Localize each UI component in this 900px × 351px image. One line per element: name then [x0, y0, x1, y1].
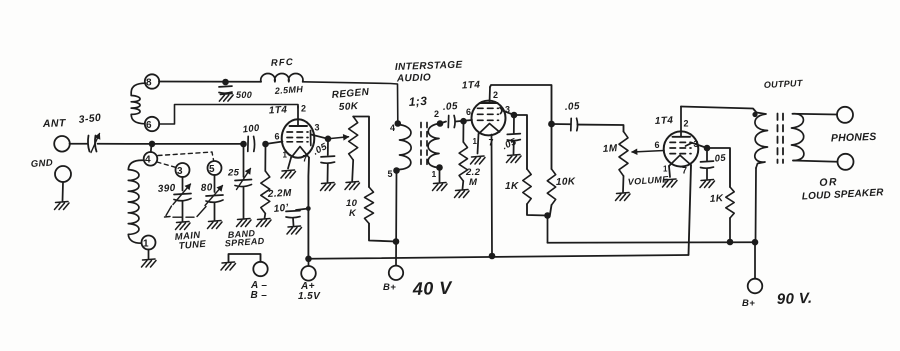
- svg-text:1M: 1M: [602, 143, 618, 155]
- inductor RFC 2.5MH: [261, 73, 303, 81]
- terminal phones top: [837, 107, 853, 123]
- svg-text:5: 5: [388, 169, 393, 179]
- svg-text:6: 6: [655, 140, 660, 150]
- svg-text:.05: .05: [711, 153, 727, 165]
- resistor R-2.2M tube2 grid: [462, 121, 464, 142]
- node 5 cap tap: [208, 161, 222, 175]
- junction screen node tube3: [704, 145, 711, 152]
- svg-text:.05: .05: [442, 101, 458, 113]
- terminal B+ 90V: [748, 279, 763, 294]
- ground under T1 secondary: [433, 183, 448, 191]
- ground terminal GND: [55, 166, 71, 182]
- wire tube2 plate: [490, 85, 552, 169]
- svg-text:M: M: [469, 177, 478, 188]
- svg-text:2: 2: [434, 109, 439, 119]
- ground under 10: [287, 226, 302, 234]
- svg-text:8: 8: [146, 78, 152, 89]
- wire tube2 pin7 filament: [491, 135, 494, 256]
- wire 10K to B+40 rail: [369, 224, 396, 242]
- svg-text:1T4: 1T4: [269, 105, 288, 117]
- svg-text:2: 2: [493, 90, 498, 100]
- svg-text:1.5V: 1.5V: [298, 291, 321, 302]
- capacitor C-.05 coupling tube2: [570, 118, 572, 130]
- svg-text:80: 80: [200, 182, 213, 194]
- wire tube1 pin7 filament: [307, 158, 310, 259]
- wire secondary to phones top: [793, 113, 838, 116]
- junction A+ node: [305, 255, 312, 262]
- terminal phones bottom: [838, 154, 854, 170]
- capacitor C-.05 screen tube1: [327, 139, 329, 155]
- wire B+90 rail riser: [547, 216, 549, 243]
- capacitor C-.05 screen tube3: [706, 148, 708, 161]
- wire screen to regen wiper: [328, 137, 349, 139]
- wire node1 down: [148, 250, 150, 259]
- ground under .05 tube3: [700, 180, 715, 188]
- wire sec pin1 to ground: [439, 168, 441, 183]
- svg-text:6: 6: [146, 120, 152, 131]
- svg-text:LOUD SPEAKER: LOUD SPEAKER: [802, 187, 885, 202]
- wire tube1 pin1 to ground: [288, 158, 291, 169]
- svg-text:OUTPUT: OUTPUT: [764, 78, 804, 90]
- junction pin1 sec: [436, 164, 443, 171]
- winding T1 secondary: [428, 124, 440, 168]
- wire tube3 pin7 filament: [689, 165, 692, 255]
- svg-text:.05: .05: [501, 136, 519, 152]
- junction B+ feed node: [544, 212, 551, 219]
- svg-text:INTERSTAGE: INTERSTAGE: [395, 60, 463, 73]
- wire RFC to interstage pin4: [303, 82, 398, 122]
- junction tank-coil node: [149, 141, 156, 148]
- svg-text:1: 1: [143, 239, 149, 250]
- resistor R-10K regen feed: [365, 187, 374, 224]
- junction pin5: [393, 167, 400, 174]
- svg-text:PHONES: PHONES: [831, 131, 877, 145]
- wire A+ filament bus: [309, 255, 689, 259]
- svg-text:ANT: ANT: [42, 117, 67, 130]
- wire grid to tube1: [266, 142, 283, 145]
- dashed link 4 to 3: [157, 162, 176, 168]
- wire tube1 pin3 screen: [311, 135, 328, 139]
- svg-text:B+: B+: [742, 298, 755, 309]
- wire pot top to 10K: [353, 117, 369, 188]
- svg-text:B+: B+: [383, 282, 396, 293]
- wire to tube2 grid: [456, 120, 473, 122]
- wire ANT lead: [70, 143, 88, 145]
- junction gridleak node: [262, 141, 269, 148]
- wire 8 to RFC: [159, 81, 261, 83]
- resistor R-2.2M grid leak: [264, 144, 266, 171]
- junction bypass node: [222, 79, 229, 86]
- winding T2 primary: [755, 113, 768, 169]
- wire tube3 pin2 internal: [680, 107, 682, 137]
- wire gnd lead: [62, 182, 65, 201]
- terminal A- B-: [229, 254, 261, 262]
- svg-text:GND: GND: [30, 157, 53, 170]
- wire tube2 pin2 internal: [489, 87, 492, 103]
- svg-text:10’: 10’: [273, 202, 289, 215]
- node 4 coil tap: [144, 152, 158, 166]
- svg-text:TUNE: TUNE: [178, 239, 207, 252]
- wire tank top: [98, 143, 246, 145]
- svg-text:2.5MH: 2.5MH: [273, 84, 303, 96]
- ground under tube2 pin1: [471, 156, 486, 164]
- capacitor C-10 filament bypass: [296, 209, 308, 211]
- svg-text:AUDIO: AUDIO: [396, 72, 432, 84]
- svg-text:7: 7: [303, 154, 308, 164]
- ground under 80: [208, 221, 223, 229]
- dashed link 4 to 5: [158, 152, 214, 160]
- svg-text:1: 1: [663, 165, 668, 174]
- wire tube2 pin3 screen: [504, 111, 515, 115]
- svg-text:REGEN: REGEN: [331, 87, 370, 101]
- wire tube3 pin3 screen: [692, 143, 707, 148]
- node 8 coil tap: [145, 74, 159, 88]
- svg-text:6: 6: [275, 132, 280, 142]
- svg-text:2: 2: [301, 104, 306, 114]
- junction 1K on B+90 rail: [727, 239, 734, 246]
- svg-text:5: 5: [209, 164, 215, 175]
- ground under coil: [142, 259, 157, 267]
- core T1: [420, 123, 422, 169]
- ground under 500: [219, 94, 233, 102]
- junction plate node tube2: [548, 121, 555, 128]
- wire tube1 pin2 internal: [297, 106, 299, 126]
- ground under .05 tube2: [507, 155, 522, 163]
- ground under tube3 pin1: [663, 179, 678, 187]
- svg-text:500: 500: [236, 90, 252, 100]
- capacitor C-500: [219, 85, 232, 88]
- junction 10K node: [393, 238, 400, 245]
- terminal B+ 40V: [389, 266, 403, 280]
- coil L1 tickler: [131, 83, 145, 124]
- dashed rotor link: [165, 206, 207, 217]
- svg-text:K: K: [349, 208, 357, 219]
- wire node6 to plate line: [159, 105, 298, 125]
- wire B+40 riser: [395, 171, 398, 266]
- ground under 2.2M: [257, 219, 272, 227]
- junction pin4: [395, 120, 402, 127]
- svg-text:1T4: 1T4: [462, 80, 481, 92]
- wire tube3 pin1 to ground: [669, 166, 670, 177]
- svg-text:1;3: 1;3: [408, 94, 427, 109]
- svg-text:1: 1: [473, 137, 478, 146]
- svg-text:OR: OR: [819, 176, 838, 189]
- svg-text:3: 3: [177, 166, 183, 177]
- svg-text:SPREAD: SPREAD: [224, 236, 265, 249]
- svg-text:90 V.: 90 V.: [777, 290, 813, 308]
- ground under GND terminal: [55, 202, 70, 210]
- wire primary to B+90: [755, 168, 758, 242]
- antenna terminal ANT: [54, 136, 70, 152]
- ground under volume pot: [616, 193, 631, 201]
- resistor R-1K screen tube3: [707, 148, 730, 187]
- svg-text:1K: 1K: [709, 193, 724, 205]
- junction output primary node: [752, 239, 759, 246]
- svg-text:100: 100: [242, 123, 260, 136]
- capacitor C-25 trimmer: [243, 144, 245, 177]
- junction trimmer node: [240, 141, 247, 148]
- resistor R-10K plate load: [547, 169, 555, 205]
- junction grid node tube2: [460, 118, 467, 125]
- potentiometer R-1M volume: [619, 132, 628, 177]
- junction primary top: [752, 112, 757, 117]
- wire B+90 rail: [548, 241, 756, 244]
- coil L2 main winding: [128, 160, 144, 243]
- junction pin7 on A+ bus: [489, 253, 496, 260]
- svg-text:B –: B –: [251, 290, 268, 301]
- svg-text:1: 1: [432, 169, 437, 179]
- svg-text:1: 1: [283, 151, 288, 160]
- svg-text:25: 25: [227, 168, 240, 179]
- svg-text:50K: 50K: [339, 101, 359, 113]
- terminal A+ 1.5V: [308, 259, 310, 266]
- ground under regen pot: [345, 182, 360, 190]
- svg-text:390: 390: [157, 183, 176, 195]
- resistor R-1K screen tube2: [514, 115, 527, 169]
- wire tube2 pin1 to ground: [478, 134, 479, 154]
- capacitor C-.05 screen tube2: [513, 115, 515, 134]
- svg-text:RFC: RFC: [271, 57, 295, 69]
- svg-text:4: 4: [390, 123, 395, 133]
- capacitor C-ant 3-50: [88, 136, 90, 152]
- svg-text:1K: 1K: [505, 181, 519, 192]
- tube U2 1T4 audio: [472, 101, 506, 136]
- wire wiper to tube3 grid: [632, 151, 664, 153]
- svg-text:3-50: 3-50: [78, 112, 102, 126]
- core T2: [777, 114, 779, 164]
- node 1 coil tap: [142, 236, 156, 250]
- winding T1 primary: [397, 125, 411, 170]
- svg-text:2: 2: [684, 119, 689, 129]
- junction bypass 10 node: [306, 206, 311, 211]
- capacitor C-.05 coupling T1: [440, 122, 446, 124]
- tube U3 1T4 output: [664, 131, 699, 166]
- svg-text:2.2M: 2.2M: [267, 188, 293, 200]
- wire tube3 plate to output: [681, 107, 757, 113]
- svg-text:40 V: 40 V: [411, 278, 453, 299]
- svg-text:10K: 10K: [556, 176, 576, 188]
- svg-text:4: 4: [145, 155, 151, 166]
- winding T2 secondary: [792, 114, 804, 161]
- svg-text:3: 3: [315, 123, 320, 133]
- svg-text:6: 6: [466, 107, 471, 117]
- node 6 coil tap: [145, 117, 159, 131]
- wire cap to volume pot: [578, 125, 624, 132]
- capacitor C-100 grid: [247, 136, 249, 151]
- svg-text:.05: .05: [564, 101, 580, 113]
- ground under .05 tube1: [321, 183, 336, 191]
- ground under 2.2M tube2: [455, 190, 470, 198]
- svg-text:1T4: 1T4: [655, 115, 674, 127]
- tube U1 1T4 detector: [282, 119, 315, 157]
- junction screen node tube2: [511, 112, 518, 119]
- junction screen node tube1: [325, 136, 332, 143]
- capacitor C-80 bandspread: [214, 175, 216, 192]
- ground under 390: [176, 222, 191, 230]
- junction pin2: [437, 120, 444, 127]
- capacitor C-390 main tuning: [182, 177, 184, 191]
- wire secondary to phones bottom: [793, 161, 838, 162]
- node 3 cap tap: [176, 163, 190, 177]
- svg-text:7: 7: [682, 166, 687, 176]
- ground under 25: [237, 219, 252, 227]
- ground under tube1 pin1: [281, 170, 296, 178]
